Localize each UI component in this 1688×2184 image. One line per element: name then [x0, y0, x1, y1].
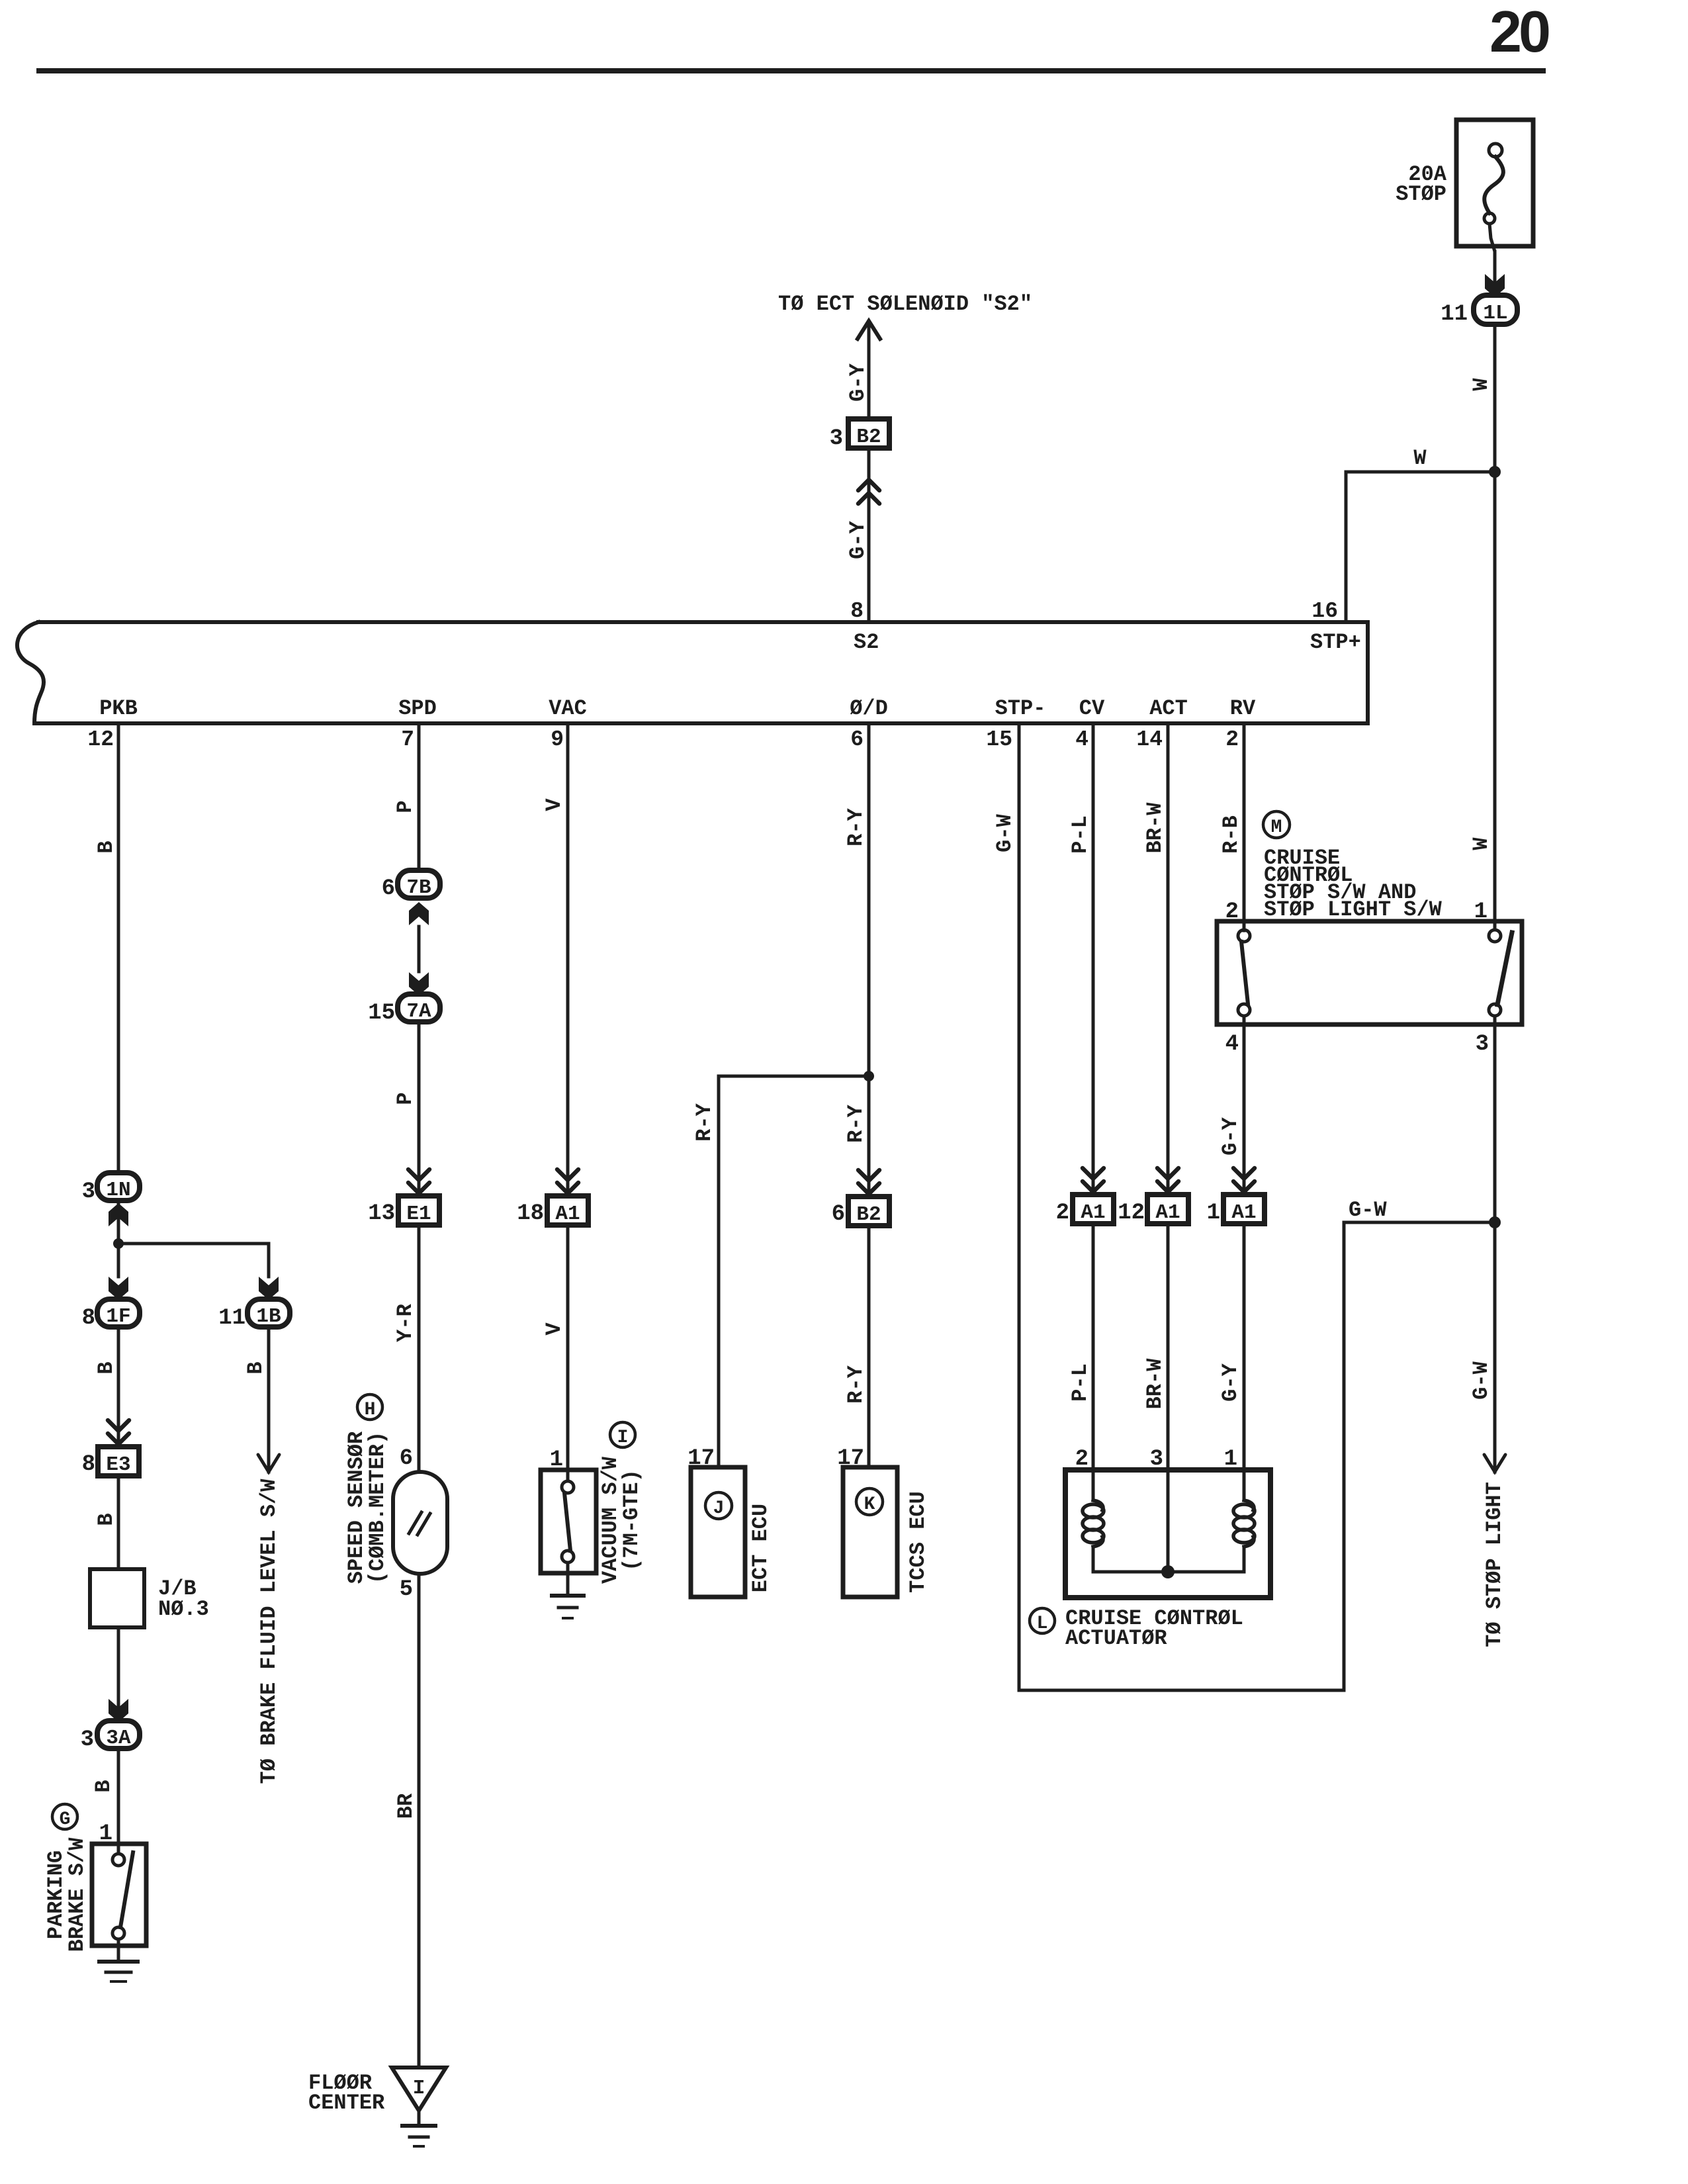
svg-text:G-W: G-W	[1469, 1361, 1493, 1399]
svg-text:7B: 7B	[406, 876, 431, 899]
top border rule	[36, 68, 1546, 73]
wire G-Y to actuator	[1243, 1224, 1246, 1500]
ground floor center	[392, 2068, 446, 2111]
svg-text:7: 7	[401, 727, 414, 752]
svg-text:3: 3	[82, 1179, 95, 1205]
wire B	[267, 1328, 271, 1472]
svg-text:NØ.3: NØ.3	[158, 1597, 209, 1621]
svg-text:G: G	[60, 1809, 71, 1830]
svg-text:B: B	[94, 1361, 118, 1374]
svg-text:BR: BR	[394, 1793, 418, 1819]
svg-text:G-Y: G-Y	[846, 363, 870, 401]
chevron arrow down into A1	[1233, 1168, 1255, 1192]
svg-text:(CØMB.METER): (CØMB.METER)	[365, 1432, 390, 1584]
svg-text:ECT ECU: ECT ECU	[748, 1504, 773, 1592]
svg-text:(7M-GTE): (7M-GTE)	[619, 1469, 644, 1571]
svg-text:W: W	[1469, 837, 1493, 850]
wire G-W from pin 15 routed around actuator to stop light junction	[1019, 725, 1495, 1690]
svg-text:3: 3	[81, 1727, 94, 1752]
solid arrow into 1L	[1485, 274, 1505, 297]
svg-text:W: W	[1469, 378, 1493, 391]
ground parking brake	[99, 1962, 138, 1981]
svg-text:B2: B2	[856, 426, 881, 449]
svg-text:8: 8	[82, 1452, 95, 1477]
wire fuse to 1L	[1493, 251, 1497, 294]
component letter I	[610, 1422, 635, 1447]
svg-text:PKB: PKB	[99, 696, 138, 721]
svg-text:1: 1	[1207, 1201, 1220, 1226]
component letter H	[357, 1394, 382, 1420]
svg-text:P-L: P-L	[1068, 1363, 1092, 1402]
chevron arrow down into E1	[408, 1169, 429, 1193]
label VACUUM S/W (7M-GTE)	[598, 1456, 644, 1584]
svg-text:I: I	[617, 1428, 629, 1448]
label PARKING BRAKE S/W	[44, 1837, 89, 1952]
node junction O/D	[864, 1071, 874, 1081]
svg-text:A1: A1	[1231, 1201, 1256, 1224]
solid arrow down into 1F	[109, 1277, 128, 1300]
wire	[117, 1203, 120, 1277]
solid arrow down into 3A	[109, 1699, 128, 1722]
svg-text:B2: B2	[856, 1203, 881, 1226]
wire P-L from pin 4	[1092, 725, 1095, 1195]
svg-text:G-Y: G-Y	[1218, 1363, 1243, 1401]
wire	[418, 927, 421, 972]
svg-text:R-Y: R-Y	[844, 1365, 868, 1403]
wire BR-W from pin 14	[1167, 725, 1170, 1195]
svg-text:B: B	[91, 1780, 116, 1792]
svg-text:S2: S2	[854, 630, 879, 655]
node junction to brake fluid branch	[113, 1238, 124, 1249]
svg-text:BRAKE S/W: BRAKE S/W	[65, 1837, 89, 1952]
svg-text:H: H	[365, 1400, 376, 1420]
wire B	[117, 1328, 120, 1447]
svg-text:1L: 1L	[1483, 302, 1507, 325]
svg-text:TØ STØP LIGHT: TØ STØP LIGHT	[1482, 1482, 1507, 1647]
svg-text:V: V	[542, 798, 566, 811]
solid arrow up into 7B	[409, 902, 429, 925]
svg-text:STP+: STP+	[1310, 630, 1361, 655]
svg-text:8: 8	[850, 599, 864, 623]
svg-text:G-Y: G-Y	[846, 520, 870, 559]
svg-text:TØ BRAKE FLUID LEVEL S/W: TØ BRAKE FLUID LEVEL S/W	[257, 1479, 281, 1784]
wire S2 up from ECU	[867, 324, 871, 622]
svg-text:M: M	[1271, 817, 1282, 838]
svg-text:4: 4	[1075, 727, 1088, 752]
svg-text:E1: E1	[406, 1203, 431, 1226]
wire BR-W to actuator common	[1167, 1224, 1170, 1572]
svg-text:R-Y: R-Y	[692, 1103, 717, 1141]
svg-text:W: W	[1413, 446, 1427, 471]
node: junction W / STP+ branch	[1489, 466, 1501, 478]
svg-text:8: 8	[82, 1306, 95, 1331]
svg-text:J: J	[713, 1498, 725, 1519]
svg-text:Y-R: Y-R	[393, 1303, 418, 1342]
arrow to stop light	[1484, 1455, 1505, 1472]
chevron arrow down into A1	[1157, 1168, 1178, 1192]
wire branch to ECT ECU	[719, 1076, 869, 1467]
component letter J	[705, 1492, 732, 1519]
vacuum switch box	[541, 1470, 596, 1573]
component letter G	[52, 1804, 77, 1829]
solid arrow up into 1N	[109, 1203, 128, 1226]
svg-text:1F: 1F	[106, 1305, 130, 1328]
svg-text:ACT: ACT	[1149, 696, 1188, 721]
svg-text:Ø/D: Ø/D	[850, 696, 888, 721]
svg-text:P: P	[393, 800, 418, 813]
svg-text:1B: 1B	[256, 1305, 281, 1328]
svg-text:13: 13	[368, 1201, 395, 1226]
svg-text:TCCS ECU: TCCS ECU	[906, 1491, 930, 1593]
chevron arrow up into B2	[858, 480, 879, 504]
arrow to ECT solenoid	[858, 321, 880, 339]
wire B	[117, 1750, 120, 1844]
svg-text:A1: A1	[1155, 1201, 1180, 1224]
wire W from 1L down to stop light switch pin 1	[1493, 326, 1497, 930]
wire	[867, 477, 871, 622]
svg-text:G-Y: G-Y	[1218, 1116, 1243, 1155]
svg-text:R-Y: R-Y	[844, 807, 868, 846]
svg-text:G-W: G-W	[993, 813, 1017, 852]
svg-text:STØP LIGHT S/W: STØP LIGHT S/W	[1264, 897, 1443, 922]
component letter M	[1263, 811, 1290, 838]
wire coil bottoms to common	[1092, 1547, 1095, 1572]
wire P from pin 7	[418, 725, 421, 872]
svg-text:RV: RV	[1230, 696, 1256, 721]
component letter K	[856, 1488, 883, 1515]
chevron arrow down into E3	[108, 1420, 129, 1444]
svg-text:15: 15	[368, 1001, 395, 1026]
wire	[117, 1627, 120, 1722]
wire BR to floor center	[418, 1574, 421, 2068]
speed sensor (comb.meter)	[393, 1472, 447, 1574]
ECU main box	[34, 622, 1368, 723]
svg-text:VAC: VAC	[549, 696, 587, 721]
svg-text:6: 6	[832, 1202, 845, 1227]
coil right	[1233, 1500, 1255, 1547]
wire pin 3 stop light switch down	[1493, 1016, 1497, 1222]
wire P-L to actuator	[1092, 1224, 1095, 1500]
svg-text:3A: 3A	[106, 1727, 131, 1750]
cruise stop switch contacts	[1238, 930, 1250, 942]
svg-text:CV: CV	[1079, 696, 1105, 721]
wire branch to 1B	[118, 1244, 269, 1277]
svg-text:4: 4	[1225, 1032, 1239, 1057]
chevron arrow down into A1	[557, 1169, 578, 1193]
svg-text:E3: E3	[106, 1453, 130, 1477]
svg-text:CENTER: CENTER	[308, 2091, 385, 2115]
svg-text:6: 6	[850, 727, 864, 752]
svg-text:I: I	[413, 2077, 425, 2100]
svg-text:TØ ECT SØLENØID "S2": TØ ECT SØLENØID "S2"	[778, 292, 1032, 316]
svg-text:15: 15	[986, 727, 1012, 752]
wire B from pin 12	[117, 725, 120, 1175]
wire branch to ECU pin 16	[1346, 472, 1495, 622]
svg-text:G-W: G-W	[1349, 1198, 1387, 1222]
wire R-Y	[867, 1226, 871, 1467]
wire G-W down to stop light	[1493, 1222, 1497, 1472]
svg-text:16: 16	[1311, 599, 1338, 623]
svg-text:K: K	[864, 1494, 875, 1515]
svg-text:P-L: P-L	[1068, 815, 1092, 854]
node actuator common junction	[1161, 1565, 1175, 1578]
svg-text:6: 6	[382, 876, 395, 901]
wire R-B from pin 2	[1243, 725, 1246, 931]
svg-text:A1: A1	[555, 1203, 580, 1226]
junction block J/B No.3	[90, 1569, 144, 1627]
svg-text:3: 3	[830, 426, 843, 451]
svg-text:11: 11	[1441, 302, 1468, 327]
svg-text:L: L	[1037, 1614, 1048, 1634]
wire R-Y from pin 6	[867, 725, 871, 1197]
wire G-Y from pin 4	[1243, 1016, 1246, 1195]
svg-text:STØP: STØP	[1396, 182, 1446, 206]
component letter L	[1030, 1608, 1055, 1633]
cruise control stop s/w and stop light s/w box	[1217, 921, 1522, 1024]
svg-text:6: 6	[400, 1446, 413, 1471]
svg-text:1N: 1N	[106, 1179, 130, 1202]
svg-text:14: 14	[1136, 727, 1163, 752]
svg-text:ACTUATØR: ACTUATØR	[1065, 1626, 1167, 1651]
svg-text:7A: 7A	[406, 1000, 431, 1023]
coil left	[1083, 1500, 1104, 1547]
chevron arrow down into B2	[858, 1170, 879, 1194]
svg-text:B: B	[94, 841, 118, 853]
svg-text:5: 5	[400, 1577, 413, 1602]
wire V from pin 9	[566, 725, 570, 1196]
svg-text:P: P	[393, 1092, 418, 1105]
svg-text:SPD: SPD	[398, 696, 437, 721]
svg-text:BR-W: BR-W	[1143, 802, 1167, 854]
TCCS ECU box	[843, 1467, 897, 1597]
svg-text:2: 2	[1225, 727, 1239, 752]
svg-text:BR-W: BR-W	[1143, 1358, 1167, 1410]
svg-text:12: 12	[87, 727, 114, 752]
solid arrow down into 1B	[259, 1277, 279, 1300]
svg-text:18: 18	[517, 1201, 544, 1226]
arrow to brake fluid level switch	[258, 1455, 279, 1472]
svg-text:3: 3	[1476, 1032, 1489, 1057]
svg-text:11: 11	[218, 1306, 245, 1331]
solid arrow down into 7A	[409, 972, 429, 995]
chevron arrow down into A1	[1083, 1168, 1104, 1192]
svg-text:A1: A1	[1081, 1201, 1105, 1224]
svg-text:B: B	[94, 1513, 118, 1525]
ground vacuum switch	[566, 1563, 570, 1595]
wire Y-R	[418, 1225, 421, 1472]
svg-text:STP-: STP-	[995, 696, 1046, 721]
svg-text:9: 9	[551, 727, 564, 752]
label SPEED SENSOR (COMB.METER)	[344, 1431, 390, 1584]
fuse 20A STOP	[1456, 120, 1533, 273]
svg-text:R-B: R-B	[1219, 815, 1243, 854]
wire P	[418, 1023, 421, 1196]
wire V	[566, 1225, 570, 1481]
svg-text:12: 12	[1118, 1201, 1145, 1226]
ECT ECU box	[691, 1467, 745, 1597]
svg-text:R-Y: R-Y	[844, 1104, 868, 1142]
svg-text:B: B	[244, 1361, 268, 1374]
ECU left break squiggle	[17, 622, 44, 723]
stop light switch contacts	[1489, 930, 1501, 942]
svg-text:V: V	[542, 1322, 566, 1336]
svg-text:20: 20	[1489, 0, 1549, 64]
svg-text:2: 2	[1056, 1201, 1069, 1226]
wire B	[117, 1476, 120, 1569]
parking brake switch	[92, 1844, 146, 1946]
node junction with stop light wire	[1489, 1216, 1501, 1228]
